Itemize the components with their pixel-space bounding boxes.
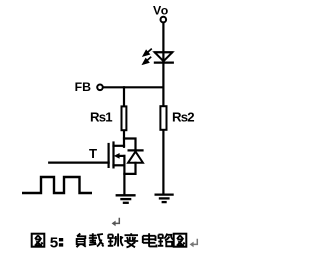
svg-text:Rs2: Rs2	[172, 110, 194, 125]
terminal Vo	[161, 17, 167, 23]
wire diode anode to source rail	[124, 163, 135, 174]
svg-text:Rs1: Rs1	[90, 110, 112, 125]
caption: 图 5：负载跳变电路图 (hand-drawn glyphs)	[32, 233, 187, 251]
paragraph return mark (after caption)	[190, 239, 198, 247]
paragraph return mark (above caption)	[112, 218, 120, 227]
图 #2	[174, 234, 187, 247]
svg-text:T: T	[89, 146, 97, 161]
terminal FB	[97, 85, 103, 91]
body diode	[128, 150, 144, 162]
transistor T (N-MOSFET)	[109, 143, 125, 168]
square-wave drive signal	[22, 177, 92, 193]
LED light arrows	[143, 49, 152, 64]
svg-text:Vo: Vo	[153, 3, 169, 17]
变	[124, 233, 138, 247]
wire Rs2 bottom to ground	[162, 130, 164, 193]
载	[89, 233, 104, 246]
svg-text:FB: FB	[75, 80, 92, 94]
wire Vo to FB junction to Rs2 (right branch vertical)	[162, 23, 164, 105]
ground (left, MOSFET source)	[116, 195, 136, 203]
wire MOSFET source to ground	[123, 165, 125, 194]
图 #1	[32, 234, 45, 247]
ground (right, Rs2)	[155, 195, 174, 203]
transistor body arrow	[114, 153, 120, 159]
wire FB rail down to Rs1	[123, 87, 125, 105]
跳	[108, 234, 123, 247]
wire FB terminal to right branch	[103, 86, 163, 88]
wire Rs1 bottom to MOSFET drain	[123, 131, 125, 147]
resistor Rs2	[160, 106, 166, 130]
svg-text:5: 5	[50, 234, 59, 251]
路	[158, 234, 173, 247]
wire drain jog to body diode cathode	[124, 139, 136, 150]
负	[77, 234, 86, 248]
wire gate lead	[49, 162, 108, 164]
resistor Rs1	[122, 106, 127, 130]
： fullwidth colon	[59, 238, 63, 241]
电	[143, 233, 157, 246]
LED	[154, 52, 174, 62]
